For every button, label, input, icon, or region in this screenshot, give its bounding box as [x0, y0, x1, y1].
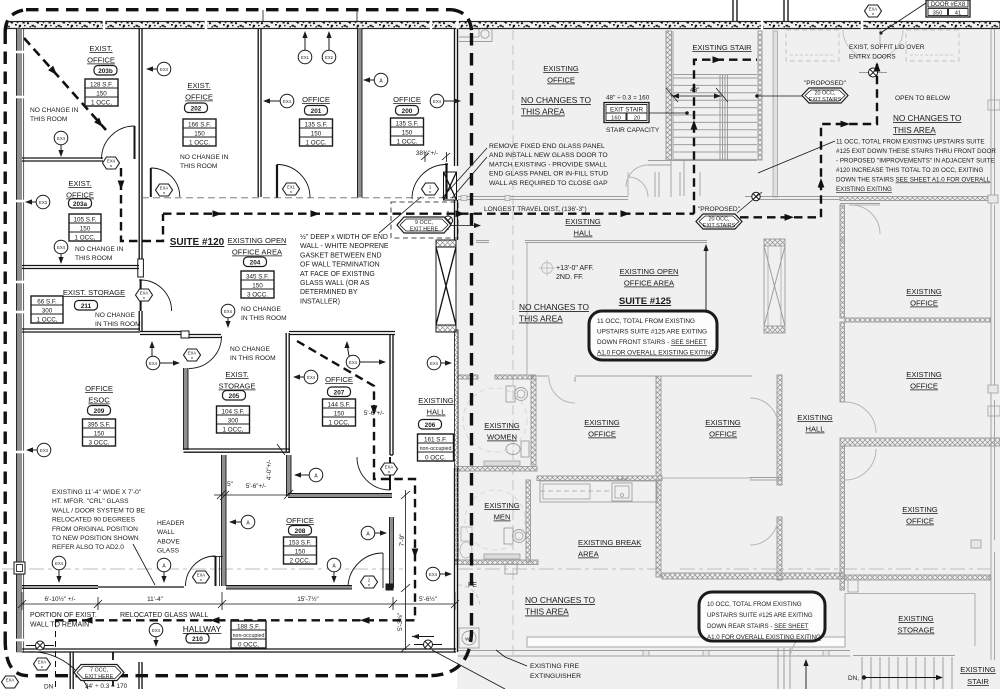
- svg-text:EXISTING: EXISTING: [565, 217, 601, 226]
- svg-text:7'-9": 7'-9": [399, 534, 406, 547]
- svg-text:EX3: EX3: [39, 200, 48, 205]
- svg-text:SUITE #120: SUITE #120: [170, 237, 225, 248]
- svg-text:395 S.F.: 395 S.F.: [87, 421, 110, 428]
- svg-text:150: 150: [311, 130, 322, 137]
- svg-text:11'-4": 11'-4": [147, 596, 163, 603]
- svg-text:DN: DN: [44, 684, 54, 689]
- occupancy stat tables: [31, 79, 454, 648]
- wall: thick hatched wall mid right: [840, 438, 1000, 446]
- svg-text:OFFICE: OFFICE: [910, 299, 938, 308]
- exit path: thin dashed through exterior door: [55, 621, 57, 689]
- svg-text:UPSTAIRS SUITE #125 ARE EXITI: UPSTAIRS SUITE #125 ARE EXITING: [597, 329, 707, 336]
- svg-text:NO CHANGES TO: NO CHANGES TO: [521, 95, 591, 105]
- svg-text:2 OCC.: 2 OCC.: [290, 557, 311, 564]
- wall: vertical wall between office 203b and 202: [138, 29, 140, 260]
- svg-text:AND INSTALL NEW GLASS DOOR TO: AND INSTALL NEW GLASS DOOR TO: [489, 152, 608, 159]
- exit path: office 207 diagonal to hallway: [297, 341, 415, 620]
- svg-text:OFFICE: OFFICE: [547, 76, 575, 85]
- svg-text:+13'-0" AFF.: +13'-0" AFF.: [556, 265, 594, 272]
- leader from AD2.0 note to glass wall: [133, 544, 155, 585]
- wall: hatched wall top of right offices: [840, 197, 990, 201]
- wall: vertical gray wall between office 201 and 200: [358, 29, 363, 198]
- svg-text:EXA: EXA: [6, 678, 15, 683]
- door arcs offices 202 and 201: [276, 165, 278, 198]
- stair center stringer rails: [719, 74, 721, 160]
- node EX4 at office 207 top: [344, 341, 386, 369]
- svg-text:150: 150: [80, 225, 91, 232]
- svg-text:THIS ROOM: THIS ROOM: [75, 255, 112, 262]
- svg-text:NO CHANGE: NO CHANGE: [241, 306, 282, 313]
- door leaf+arc at glass wall: [215, 556, 217, 586]
- svg-text:WOMEN: WOMEN: [487, 433, 517, 442]
- svg-text:HT. MFGR. "CRL" GLASS: HT. MFGR. "CRL" GLASS: [52, 498, 129, 505]
- svg-text:OFFICE AREA: OFFICE AREA: [232, 248, 283, 257]
- exit path: hallway 210 to west exit: [55, 619, 415, 621]
- small up arrow bottom right of hall: [803, 659, 808, 689]
- node EX2: [322, 31, 336, 64]
- svg-text:EXISTING: EXISTING: [960, 665, 996, 674]
- svg-text:EXISTING: EXISTING: [705, 418, 741, 427]
- svg-text:NO CHANGE IN: NO CHANGE IN: [75, 246, 124, 253]
- note: portion of exist wall: [30, 612, 208, 629]
- svg-text:THIS AREA: THIS AREA: [521, 107, 565, 117]
- svg-text:LONGEST TRAVEL DIST, (136'-3"): LONGEST TRAVEL DIST, (136'-3"): [484, 206, 587, 213]
- wall: right boundary hatched mid section: [455, 330, 459, 560]
- 11 occ long note: [836, 139, 996, 194]
- svg-text:38¾"+/-: 38¾"+/-: [416, 150, 438, 157]
- svg-text:150: 150: [334, 410, 345, 417]
- svg-text:NO CHANGE: NO CHANGE: [230, 346, 271, 353]
- svg-text:EXISTING: EXISTING: [484, 501, 520, 510]
- proposed 20 occ exit stairs (hall): [696, 214, 742, 229]
- wall: top walls of suite 125 offices: [537, 375, 549, 377]
- svg-text:EXIST.: EXIST.: [68, 179, 91, 188]
- svg-text:RELOCATED GLASS WALL: RELOCATED GLASS WALL: [120, 612, 208, 619]
- svg-text:EXIT STAIR: EXIT STAIR: [610, 107, 644, 114]
- svg-text:EX4: EX4: [160, 67, 169, 72]
- leader from header-wall note: [167, 555, 169, 557]
- svg-text:EXISTING BREAK: EXISTING BREAK: [578, 538, 641, 547]
- bottom left small stair / door: [777, 648, 779, 689]
- svg-text:DOWN THE STAIRS SEE SHEET A1.0: DOWN THE STAIRS SEE SHEET A1.0 FOR OVERA…: [836, 177, 991, 184]
- window symbol on gray construction line at left wall: [14, 562, 25, 574]
- svg-text:EXISTING: EXISTING: [584, 418, 620, 427]
- leader line from end-wall note: [379, 197, 421, 233]
- svg-text:MEN: MEN: [494, 513, 511, 522]
- svg-text:ABOVE: ABOVE: [157, 538, 180, 545]
- svg-text:150: 150: [194, 130, 205, 137]
- svg-text:EXISTING: EXISTING: [543, 64, 579, 73]
- stair lower-left gray wall details: [648, 160, 757, 162]
- svg-text:THIS ROOM: THIS ROOM: [30, 116, 67, 123]
- svg-text:HALL: HALL: [806, 425, 825, 434]
- proposed 20 occ exit stairs (upper): [802, 88, 848, 103]
- svg-text:non-occupied: non-occupied: [233, 633, 265, 639]
- svg-text:15'-7½": 15'-7½": [297, 595, 319, 603]
- svg-text:EX4: EX4: [152, 628, 161, 633]
- wall: hatched wall bottom of suite 125 offices: [662, 573, 843, 579]
- 9 occ exit here: [397, 217, 451, 233]
- wall: bottom-left walls below hallway: [69, 652, 71, 689]
- leader from door tag EX8: [882, 3, 926, 32]
- svg-text:STAIR CAPACITY: STAIR CAPACITY: [606, 127, 660, 134]
- svg-text:5'-6"+/-: 5'-6"+/-: [246, 483, 266, 490]
- svg-text:STAIR: STAIR: [967, 677, 989, 686]
- svg-text:EXIST, SOFFIT LID OVER: EXIST, SOFFIT LID OVER: [849, 44, 925, 51]
- note: existing glass wall relocation: [52, 489, 146, 551]
- svg-text:210: 210: [192, 636, 203, 643]
- dim ticks near storage 205 bottom corner: [277, 444, 285, 455]
- node EX4 at 202 wall: [146, 62, 171, 76]
- wall: hatched wall under top-right office: [845, 318, 990, 322]
- svg-text:2ND. FF.: 2ND. FF.: [556, 274, 584, 281]
- svg-text:STORAGE: STORAGE: [898, 626, 935, 635]
- door arc into hall from existing office: [628, 177, 648, 197]
- rounded bold note box suite 125 front: [589, 311, 717, 360]
- door arc office 208 lower: [382, 553, 384, 588]
- exit device at hallway end (left): [26, 641, 54, 650]
- vertical dim line right of hall 206: [0, 0, 1, 1]
- svg-text:A1.0 FOR OVERALL EXISTING EXIT: A1.0 FOR OVERALL EXISTING EXITING: [707, 634, 821, 641]
- svg-text:EX4: EX4: [224, 309, 233, 314]
- wall: top wall of storage 205 row: [140, 331, 181, 333]
- svg-text:EXISTING: EXISTING: [898, 614, 934, 623]
- svg-text:20 OCC,: 20 OCC,: [815, 91, 836, 97]
- svg-text:EXIT HERE: EXIT HERE: [410, 227, 439, 233]
- svg-text:201: 201: [311, 108, 322, 115]
- heavy dashed demolition/suite boundary border: [26, 8, 452, 11]
- svg-text:211: 211: [81, 303, 92, 310]
- lavatory + wc fixtures women: [515, 388, 528, 401]
- dimensions left plan: [44, 150, 438, 689]
- svg-text:DN,: DN,: [848, 675, 859, 682]
- wall: storage 205 left gray wall: [184, 368, 189, 450]
- svg-text:EXISTING 11'-4" WIDE X 7'-0": EXISTING 11'-4" WIDE X 7'-0": [52, 489, 142, 496]
- svg-text:AREA: AREA: [578, 550, 600, 559]
- svg-text:5'-6"+/-: 5'-6"+/-: [364, 410, 384, 417]
- svg-text:THIS ROOM: THIS ROOM: [180, 163, 217, 170]
- svg-text:345 S.F.: 345 S.F.: [246, 273, 269, 280]
- wall: hatched divider between restrooms: [455, 467, 537, 472]
- svg-text:1 OCC,: 1 OCC,: [37, 316, 58, 323]
- node EX4 at open office 204: [221, 304, 235, 328]
- svg-text:REMOVE FIXED END GLASS PANEL: REMOVE FIXED END GLASS PANEL: [489, 143, 605, 150]
- svg-text:34' ÷ 0.3 = 170: 34' ÷ 0.3 = 170: [85, 683, 128, 689]
- wall: gray wall left of hallway (under storage 205): [222, 455, 227, 586]
- svg-text:THIS AREA: THIS AREA: [519, 314, 563, 324]
- leader from proposed hexagon (upper): [758, 95, 806, 97]
- svg-text:non-occupied: non-occupied: [420, 446, 452, 452]
- svg-text:HALL: HALL: [427, 408, 446, 417]
- svg-text:207: 207: [334, 390, 345, 397]
- wall: vertical hatched wall between suite125 offices: [656, 376, 661, 476]
- wall: thin gray vertical at suite 125 west: [526, 243, 528, 375]
- svg-text:206: 206: [425, 422, 436, 429]
- svg-text:- PROPOSED "IMPROVEMENTS" IN A: - PROPOSED "IMPROVEMENTS" IN ADJACENT SU…: [836, 158, 995, 165]
- svg-text:203b: 203b: [98, 68, 113, 75]
- svg-text:188 S.F.: 188 S.F.: [237, 623, 260, 630]
- svg-text:150: 150: [94, 430, 105, 437]
- note: remove fixed end glass panel: [489, 143, 608, 187]
- svg-text:NO CHANGE: NO CHANGE: [95, 312, 136, 319]
- svg-text:EXA: EXA: [188, 351, 197, 356]
- svg-text:EXA: EXA: [385, 465, 394, 470]
- wall: hall north wall (gray) left of stair: [458, 196, 628, 198]
- svg-text:NO CHANGES TO: NO CHANGES TO: [525, 595, 595, 605]
- svg-text:OFFICE: OFFICE: [66, 191, 94, 200]
- svg-text:FROM ORIGINAL POSITION: FROM ORIGINAL POSITION: [52, 526, 138, 533]
- door 203a top leaf/arc: [150, 168, 152, 197]
- wall: bottom wall of hallway 210: [22, 648, 456, 650]
- svg-text:GLASS: GLASS: [157, 548, 180, 555]
- svg-text:EXISTING OPEN: EXISTING OPEN: [227, 236, 286, 245]
- door arc office 208 (in hall above): [389, 457, 391, 490]
- exit device at hallway end (right): [412, 634, 442, 649]
- svg-text:IN THIS ROOM: IN THIS ROOM: [241, 315, 287, 322]
- exit device at stair base: [745, 192, 767, 200]
- wall: office 207 right wall (to hall 206): [389, 334, 391, 455]
- svg-text:20 OCC,: 20 OCC,: [709, 217, 730, 223]
- svg-text:1 OCC,: 1 OCC,: [329, 419, 350, 426]
- svg-text:EX4: EX4: [57, 136, 66, 141]
- dimension: 38 3/4 ticks at office 200 door: [421, 152, 450, 162]
- svg-text:WALL TO REMAIN: WALL TO REMAIN: [30, 622, 89, 629]
- svg-text:350: 350: [933, 11, 943, 17]
- svg-text:SUITE #125: SUITE #125: [619, 296, 672, 307]
- wall: stair right gray wall: [758, 31, 762, 160]
- door arc storage 205: [189, 336, 222, 369]
- svg-text:EXISTING: EXISTING: [906, 370, 942, 379]
- wall joints in band: [104, 20, 862, 30]
- niche at suite boundary top: [459, 29, 492, 42]
- svg-text:IN THIS ROOM: IN THIS ROOM: [230, 355, 276, 362]
- svg-text:161 S.F.: 161 S.F.: [424, 436, 447, 443]
- leader from proposed hexagon (hall): [737, 192, 762, 213]
- svg-text:203a: 203a: [73, 201, 88, 208]
- svg-text:OFFICE: OFFICE: [393, 95, 421, 104]
- exit path: up through existing stair: [694, 60, 757, 214]
- svg-text:OFFICE: OFFICE: [709, 430, 737, 439]
- svg-text:FE: FE: [468, 582, 477, 589]
- svg-text:TO NEW POSITION SHOWN: TO NEW POSITION SHOWN: [52, 535, 139, 542]
- svg-text:6'-10½" +/-: 6'-10½" +/-: [44, 595, 75, 603]
- svg-text:WALL: WALL: [157, 529, 175, 536]
- svg-text:1 OCC,: 1 OCC,: [75, 234, 96, 241]
- svg-text:20: 20: [634, 115, 640, 121]
- wall: left outer gray wall: [17, 29, 23, 653]
- wall: gray wall left of office 208 door area: [287, 455, 292, 496]
- svg-text:AT FACE OF EXISTING: AT FACE OF EXISTING: [300, 271, 375, 278]
- svg-text:EX4: EX4: [55, 561, 64, 566]
- svg-text:11 OCC, TOTAL FROM EXISTING: 11 OCC, TOTAL FROM EXISTING: [597, 318, 695, 325]
- wall: right boundary lower section: [454, 468, 456, 652]
- svg-text:EX3: EX3: [40, 448, 49, 453]
- svg-text:OPEN TO BELOW: OPEN TO BELOW: [895, 95, 951, 102]
- svg-text:EXIT STAIRS: EXIT STAIRS: [703, 223, 736, 229]
- exit path: from room 203a door down and to suite exit: [121, 168, 163, 241]
- node A at office 208 right: [361, 526, 387, 540]
- dimension line at y=604: [18, 592, 459, 610]
- svg-text:OFFICE: OFFICE: [185, 93, 213, 102]
- node A at 204/208 wall: [294, 468, 323, 482]
- svg-text:PORTION OF EXIST.: PORTION OF EXIST.: [30, 612, 97, 619]
- node: existing plan room-split gray dashed line (vertical): [512, 30, 514, 660]
- wall: horizontal wall under office 203a: [22, 265, 139, 267]
- svg-text:EX2: EX2: [325, 55, 334, 60]
- svg-text:GASKET BETWEEN END: GASKET BETWEEN END: [300, 252, 382, 259]
- svg-text:THIS AREA: THIS AREA: [893, 126, 936, 135]
- svg-text:1 OCC.: 1 OCC.: [189, 139, 210, 146]
- column: x-braced column at suite boundary lower: [436, 240, 456, 332]
- wall: horizontal wall under storage 211: [22, 328, 140, 330]
- soffit note: [849, 44, 925, 61]
- svg-text:EXISTING: EXISTING: [906, 287, 942, 296]
- wall: hall north wall right of stair: [757, 196, 840, 198]
- svg-text:NO CHANGES TO: NO CHANGES TO: [519, 302, 589, 312]
- svg-text:1 OCC.: 1 OCC.: [397, 138, 418, 145]
- entry door swing arcs: [843, 30, 871, 58]
- svg-text:208: 208: [295, 528, 306, 535]
- existing storage room outline: [845, 593, 975, 595]
- svg-text:A1.0 FOR OVERALL EXISTING EXIT: A1.0 FOR OVERALL EXISTING EXITING: [597, 350, 715, 357]
- svg-text:END GLASS PANEL OR IN-FILL STU: END GLASS PANEL OR IN-FILL STUD: [489, 171, 608, 178]
- svg-text:WALL - WHITE NEOPRENE: WALL - WHITE NEOPRENE: [300, 243, 389, 250]
- svg-text:135 S.F.: 135 S.F.: [395, 120, 418, 127]
- svg-text:"PROPOSED": "PROPOSED": [804, 80, 847, 87]
- exit path: suite 125 to front door (right plan): [740, 64, 877, 217]
- svg-text:OFFICE: OFFICE: [906, 517, 934, 526]
- svg-text:153 S.F.: 153 S.F.: [288, 539, 311, 546]
- svg-text:11 OCC, TOTAL FROM EXISTING UP: 11 OCC, TOTAL FROM EXISTING UPSTAIRS SUI…: [836, 139, 985, 146]
- exit path: diagonal through room 203b: [24, 38, 106, 130]
- node A at glass wall: [157, 558, 171, 583]
- svg-text:½" DEEP x WIDTH OF END: ½" DEEP x WIDTH OF END: [300, 233, 388, 241]
- svg-text:5'-6½": 5'-6½": [419, 595, 437, 603]
- node EX4 at 201: [263, 94, 294, 108]
- node EX1: [298, 31, 312, 64]
- svg-text:EXISTING: EXISTING: [902, 505, 938, 514]
- leader from 11-occ note to stair: [758, 141, 835, 173]
- wall: stair enclosure left hatched wall: [666, 31, 672, 160]
- svg-text:WC: WC: [465, 637, 473, 642]
- exit device at 9-occ exit: [444, 211, 482, 230]
- svg-text:EXISTING: EXISTING: [797, 413, 833, 422]
- fire extinguisher note: [530, 663, 581, 680]
- wall: hatched wall north of break area: [537, 476, 662, 481]
- svg-text:NO CHANGE IN: NO CHANGE IN: [180, 154, 229, 161]
- wall: top wall of office 207: [289, 331, 395, 333]
- svg-text:48" ÷ 0.3 = 160: 48" ÷ 0.3 = 160: [606, 95, 650, 102]
- svg-text:3 OCC.: 3 OCC.: [89, 439, 110, 446]
- svg-text:EX4: EX4: [107, 159, 116, 164]
- svg-text:"PROPOSED": "PROPOSED": [698, 206, 741, 213]
- svg-text:0 OCC,: 0 OCC,: [238, 641, 259, 648]
- svg-text:NO CHANGE IN: NO CHANGE IN: [30, 107, 79, 114]
- svg-text:128 S.F.: 128 S.F.: [90, 81, 113, 88]
- no change notes left plan: [30, 107, 287, 362]
- restrooms: men: [526, 480, 531, 562]
- wall: top concrete wall band with speckles: [7, 22, 1000, 29]
- wall: hall south wall (gray double): [476, 240, 489, 242]
- svg-text:EXA: EXA: [140, 291, 149, 296]
- svg-text:0 OCC.: 0 OCC.: [425, 454, 446, 461]
- node A at hallway west wall: [229, 515, 255, 529]
- entry soffit dashed outlines: [786, 30, 839, 61]
- svg-text:UPSTAIRS SUITE #125 ARE EXITI: UPSTAIRS SUITE #125 ARE EXITING: [707, 612, 813, 619]
- existing building area light gray background: [457, 28, 1000, 689]
- node A at office 208 bottom: [327, 558, 341, 583]
- note: header wall above glass: [157, 520, 185, 555]
- svg-text:OFFICE: OFFICE: [286, 516, 314, 525]
- suite 125 rear exit note (in box): [707, 601, 821, 641]
- svg-text:EXIST. STORAGE: EXIST. STORAGE: [63, 288, 125, 297]
- exit tag circles with leader arrows: [25, 31, 461, 647]
- svg-text:9 OCC,: 9 OCC,: [415, 220, 433, 226]
- svg-text:HEADER: HEADER: [157, 520, 185, 527]
- svg-text:EX4: EX4: [149, 361, 158, 366]
- column: x-braced column existing (right): [764, 239, 785, 333]
- svg-text:GLASS WALL (OR AS: GLASS WALL (OR AS: [300, 280, 370, 287]
- white notches in left wall: [14, 52, 25, 640]
- door leaf and arc office 203b: [134, 126, 136, 159]
- wall: right boundary wall of suite 120: [454, 29, 456, 167]
- wall: office 208 right gray wall: [390, 517, 394, 588]
- svg-text:144 S.F.: 144 S.F.: [327, 401, 350, 408]
- svg-text:EX4: EX4: [430, 361, 439, 366]
- wall: vertical hatched wall right, below mid wall: [840, 446, 845, 590]
- svg-text:DOWN REAR STAIRS - SEE SHEET: DOWN REAR STAIRS - SEE SHEET: [707, 623, 809, 630]
- node EX4 at hall 206: [427, 356, 452, 370]
- column: x-braced column at suite boundary upper: [444, 172, 457, 200]
- node EX4 at 203b: [54, 131, 68, 157]
- svg-text:DOOR #EX8: DOOR #EX8: [931, 2, 966, 8]
- door arc for top right office: [851, 205, 880, 234]
- crosshair datum symbol (gray): [539, 260, 555, 276]
- suite 125 front exit note (in box): [597, 318, 715, 357]
- svg-text:205: 205: [229, 393, 240, 400]
- dimension: vertical dim line beside hall 206: [401, 490, 410, 652]
- node A at 201/200 wall: [363, 73, 388, 87]
- wall: storage 205 bottom wall: [184, 448, 291, 450]
- rounded bold note box suite 125 rear: [699, 592, 825, 641]
- svg-text:EXIST.: EXIST.: [187, 81, 210, 90]
- svg-text:135 S.F.: 135 S.F.: [304, 121, 327, 128]
- door arc at bottom-left exterior door: [26, 652, 88, 689]
- wall: horizontal wall under office 203b: [22, 157, 103, 159]
- node EX4 at hallway 210: [149, 623, 163, 647]
- svg-text:HALLWAY: HALLWAY: [183, 624, 222, 634]
- svg-text:WALL / DOOR SYSTEM TO BE: WALL / DOOR SYSTEM TO BE: [52, 507, 146, 514]
- dimension line header wall: [214, 490, 293, 500]
- svg-text:EXISTING OPEN: EXISTING OPEN: [619, 267, 678, 276]
- wire: gray dash-dot construction line across bottom of plans: [2, 568, 405, 570]
- svg-text:EX1: EX1: [287, 185, 296, 190]
- svg-text:RELOCATED 90 DEGREES: RELOCATED 90 DEGREES: [52, 517, 136, 524]
- wall: hallway 210 top gray wall: [226, 586, 352, 590]
- svg-text:OFFICE: OFFICE: [325, 375, 353, 384]
- svg-text:OFFICE: OFFICE: [302, 95, 330, 104]
- svg-text:EX4: EX4: [349, 360, 358, 365]
- door leaf office 200: [445, 163, 448, 165]
- svg-text:#120 INCREASE THIS TOTAL TO 20: #120 INCREASE THIS TOTAL TO 20 OCC, EXIT…: [836, 167, 984, 174]
- dn arrow bottom right: [862, 675, 943, 680]
- svg-text:MATCH EXISTING - PROVIDE SMALL: MATCH EXISTING - PROVIDE SMALL: [489, 161, 607, 168]
- wall: storage 205 / office 207 vertical wall: [285, 333, 287, 452]
- leader to fire extinguisher text: [505, 657, 527, 666]
- node EX4 below 203a: [54, 240, 68, 264]
- svg-text:160: 160: [611, 115, 621, 121]
- leader lines from remove-glass note to door 200: [442, 148, 487, 198]
